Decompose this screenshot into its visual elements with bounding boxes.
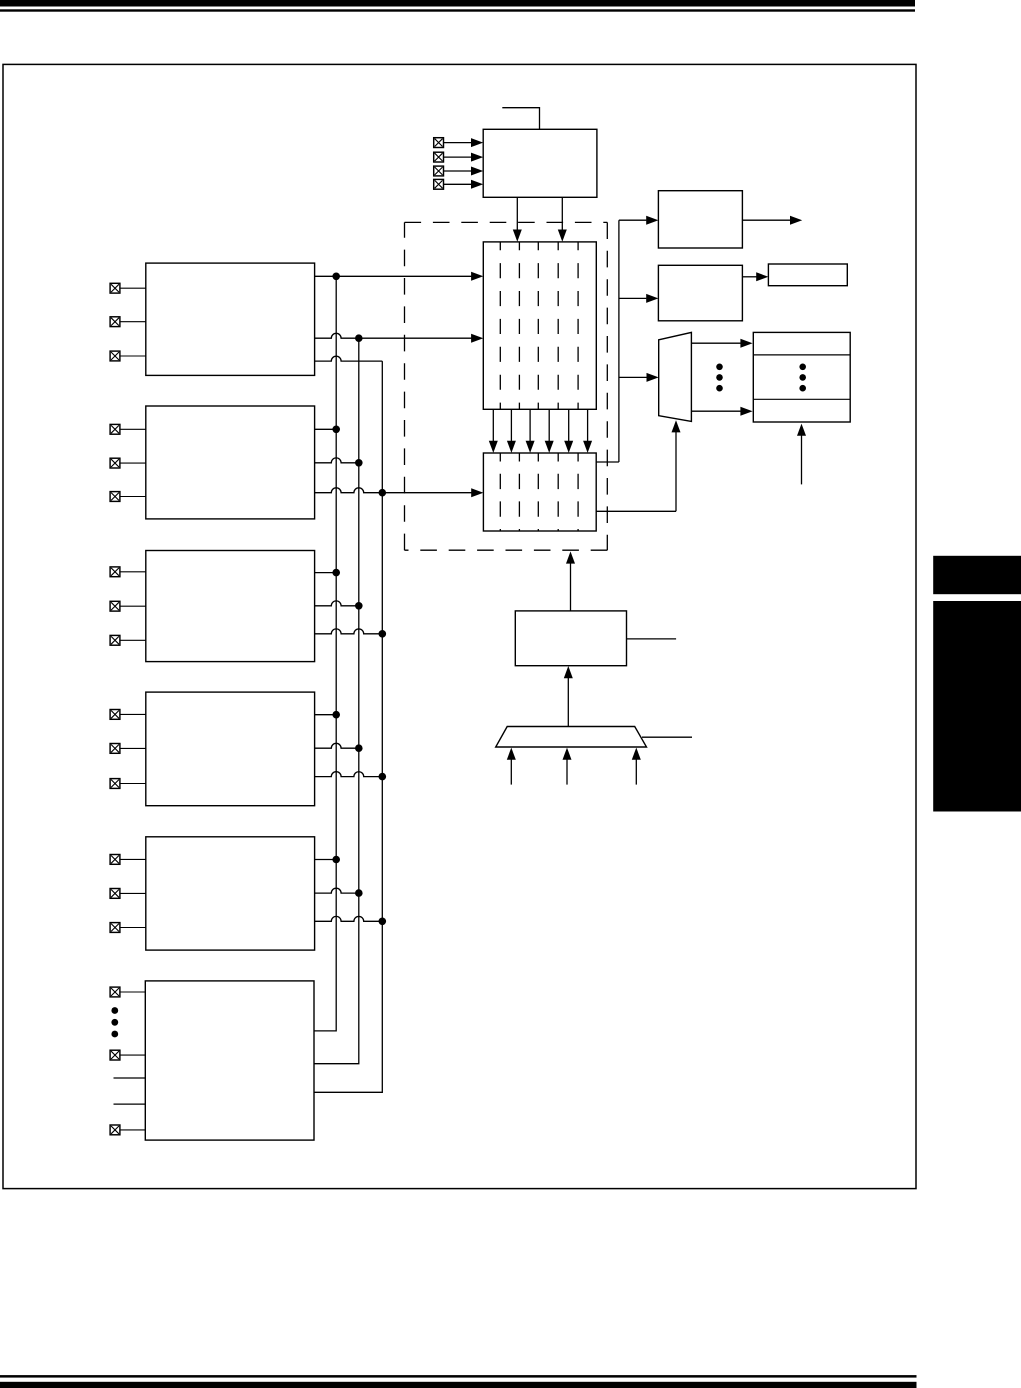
register file RF (3 rows) bbox=[753, 332, 850, 422]
wire: port F stub 1 bbox=[114, 1077, 146, 1079]
pin C0 bbox=[110, 567, 146, 577]
register block R3 (small) bbox=[768, 264, 847, 286]
wire: bus trapezoid to D1 arrow bbox=[564, 666, 573, 727]
pin C1 bbox=[110, 601, 146, 611]
wire: port B out3 to L2 bbox=[315, 488, 484, 497]
junction: bus3 / port C bbox=[379, 630, 387, 638]
wire: L2 output A to trunk bbox=[596, 461, 619, 463]
pin D2 bbox=[110, 779, 146, 789]
wire: trunk branch 2 bbox=[619, 294, 659, 303]
port block B bbox=[146, 406, 315, 519]
port block D bbox=[146, 692, 315, 806]
wire: trunk vertical bbox=[618, 220, 620, 462]
pin A1 bbox=[110, 317, 146, 327]
wires: L1 to L2 column arrows bbox=[489, 409, 592, 453]
pin B0 bbox=[110, 424, 146, 434]
bus line 2 (vertical) bbox=[314, 338, 359, 1063]
pin P3 of U1 bbox=[434, 166, 484, 176]
junction: bus1 origin bbox=[332, 273, 340, 281]
register block R2 bbox=[658, 265, 742, 321]
wire: port A out2 to L1 (bus2 tap) bbox=[315, 333, 484, 342]
wire: U1 top stub bbox=[502, 108, 539, 130]
wire: port E out1 bbox=[315, 859, 337, 861]
register block R1 bbox=[658, 191, 742, 248]
junction: bus1 / port E bbox=[332, 856, 340, 864]
pin D1 bbox=[110, 744, 146, 754]
junction: bus2 origin bbox=[355, 334, 363, 342]
bus line 3 (vertical) bbox=[314, 361, 382, 1092]
wire: RF bottom select arrow bbox=[797, 424, 806, 485]
port block F bbox=[145, 981, 314, 1140]
wire: port B out1 bbox=[315, 428, 337, 430]
bus B1 (flat trapezoid) bbox=[496, 727, 647, 748]
wire: B1 input arrow 2 bbox=[563, 748, 572, 785]
wire: port C out3 bbox=[315, 629, 383, 634]
wire: port D out1 bbox=[315, 714, 337, 716]
port block A bbox=[146, 263, 315, 375]
pin Fn bbox=[110, 1050, 145, 1060]
pin D0 bbox=[110, 710, 146, 720]
port block C bbox=[146, 551, 315, 662]
wire: trunk branch 1 bbox=[619, 216, 659, 225]
wire: D1 to dashed box arrow bbox=[566, 551, 575, 611]
dashed boundary box bbox=[405, 222, 608, 550]
port block E bbox=[146, 837, 315, 950]
ellipsis dots on port F pins bbox=[111, 1007, 118, 1037]
junction: bus1 / port B bbox=[332, 426, 340, 434]
junction: bus2 / port E bbox=[355, 889, 363, 897]
pin F0 bbox=[110, 987, 145, 997]
pin A0 bbox=[110, 283, 146, 293]
latch array block L2 (hatched) bbox=[483, 453, 596, 531]
pin C2 bbox=[110, 635, 146, 645]
wire: port A out3 / bus3 start bbox=[315, 356, 383, 361]
wire: U1 output 1 down bbox=[513, 197, 522, 241]
wire: port B out2 bbox=[315, 458, 359, 463]
junction: bus3 / port B bbox=[379, 489, 387, 497]
wire: M1 output top bbox=[691, 339, 752, 348]
junction: bus3 / port E bbox=[379, 918, 387, 926]
pin P1 of U1 bbox=[434, 138, 484, 148]
wire: port D out2 bbox=[315, 743, 359, 748]
wire: B1 input arrow 3 bbox=[632, 748, 641, 785]
wire: U1 output 2 down bbox=[558, 197, 567, 241]
oscillator/control block U1 bbox=[483, 129, 597, 197]
wire: R1 output arrow bbox=[742, 216, 802, 225]
wire: R2 output arrow bbox=[742, 272, 768, 281]
bus line 1 (vertical) bbox=[314, 276, 336, 1031]
ellipsis dots inside RF bbox=[799, 364, 806, 392]
wire: port F stub 2 bbox=[114, 1103, 146, 1105]
junction: bus2 / port D bbox=[355, 744, 363, 752]
junction: bus1 / port C bbox=[332, 569, 340, 577]
wire: M1 output bottom bbox=[691, 407, 752, 416]
wire: D1 right stub bbox=[627, 638, 677, 640]
pin B2 bbox=[110, 492, 146, 502]
wire: port C out2 bbox=[315, 601, 359, 606]
wire: trunk branch 3 bbox=[619, 373, 659, 382]
junction: bus2 / port B bbox=[355, 459, 363, 467]
pin E1 bbox=[110, 889, 146, 899]
decode block D1 bbox=[515, 611, 626, 666]
junction: bus1 / port D bbox=[332, 711, 340, 719]
wire: B1 right stub bbox=[642, 736, 692, 738]
wire: port E out3 bbox=[315, 916, 383, 921]
wire: port A out1 to L1 (bus1 tap) bbox=[315, 272, 484, 281]
pin E0 bbox=[110, 855, 146, 865]
wire: port D out3 bbox=[315, 772, 383, 777]
wire: port C out1 bbox=[315, 572, 337, 574]
pin Fx bbox=[110, 1125, 145, 1135]
pin P2 of U1 bbox=[434, 152, 484, 162]
pin B1 bbox=[110, 458, 146, 468]
ellipsis dots between M1 and register file bbox=[716, 364, 723, 392]
wire: B1 input arrow 1 bbox=[507, 748, 516, 785]
wire: port E out2 bbox=[315, 888, 359, 893]
pin P4 of U1 bbox=[434, 179, 484, 189]
junction: bus3 / port D bbox=[379, 773, 387, 781]
wire: L2 output B to mux bbox=[596, 420, 680, 511]
junction: bus2 / port C bbox=[355, 602, 363, 610]
mux M1 (trapezoid) bbox=[659, 332, 692, 421]
latch array block L1 (hatched) bbox=[483, 242, 596, 409]
pin E2 bbox=[110, 923, 146, 933]
pin A2 bbox=[110, 351, 146, 361]
